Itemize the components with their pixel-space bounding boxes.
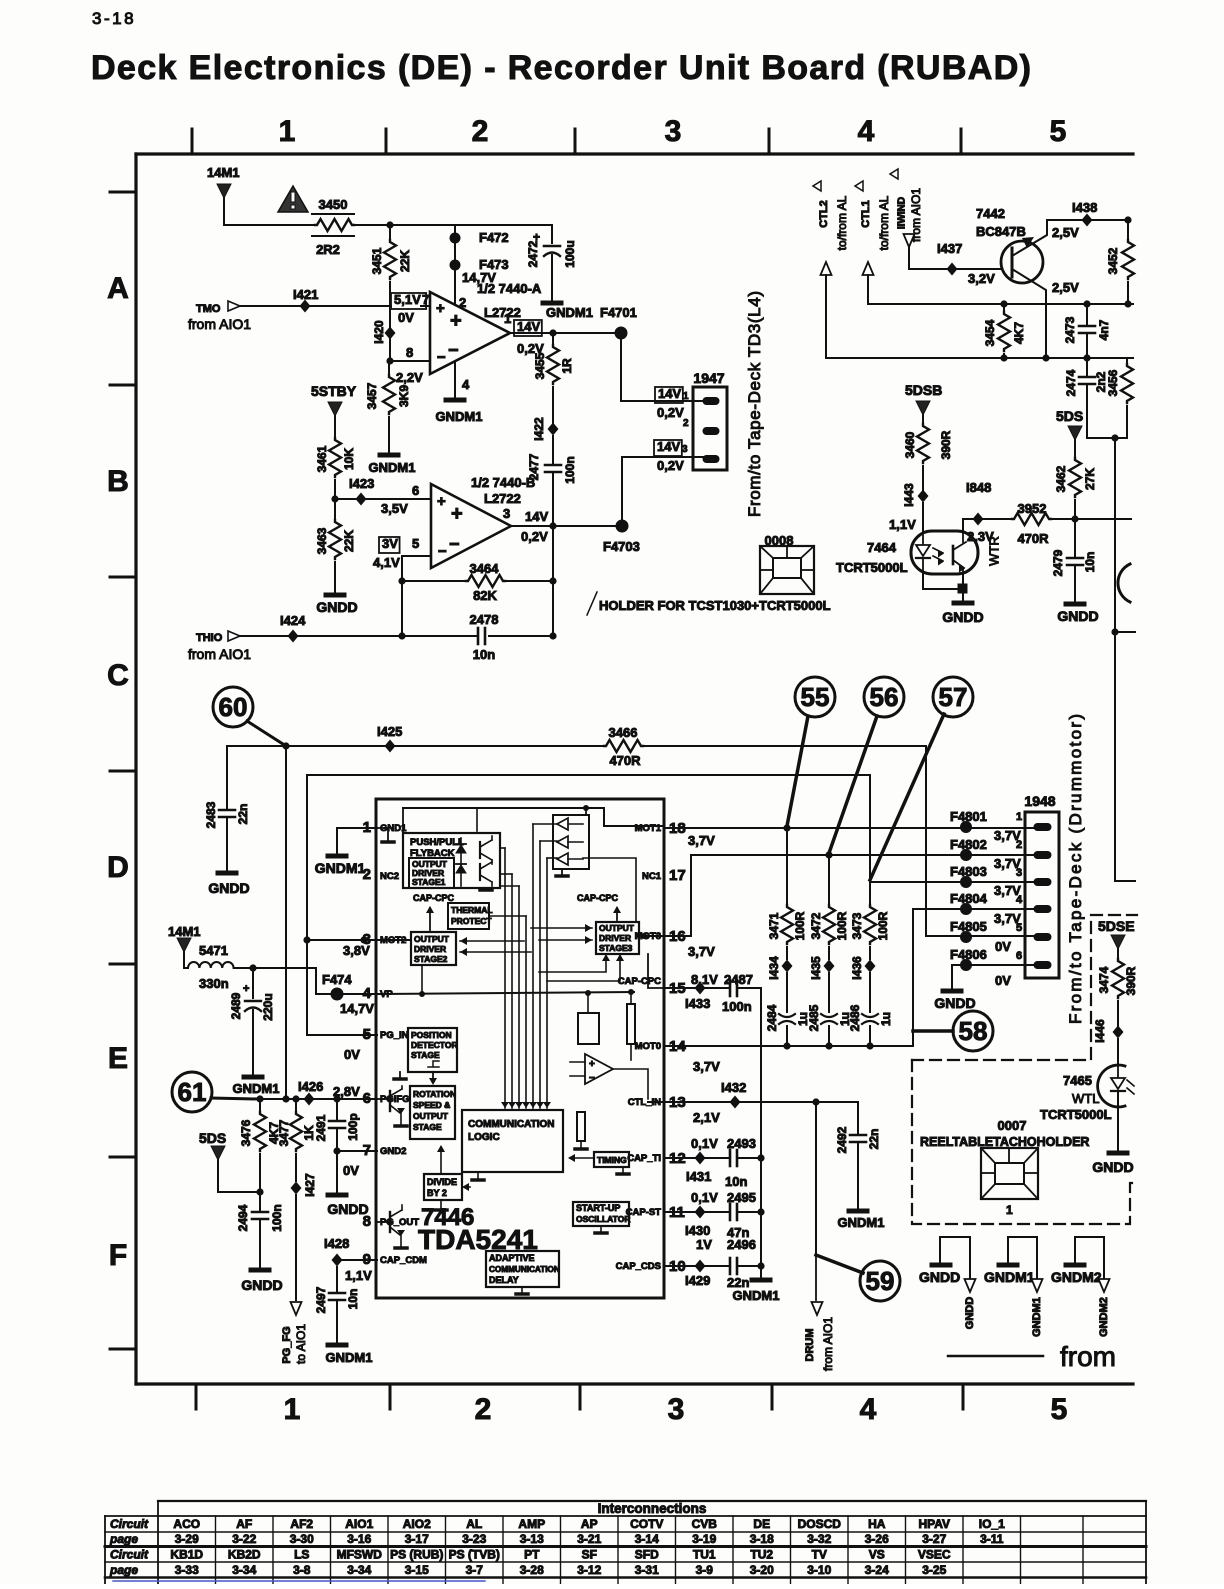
svg-text:OUTPUT: OUTPUT [413,1111,449,1121]
svg-text:2R2: 2R2 [316,242,340,257]
svg-text:GNDM1: GNDM1 [233,1081,280,1096]
ground GNDM1 under 2492 [849,1209,867,1214]
svg-text:BY 2: BY 2 [427,1188,447,1198]
svg-text:6: 6 [1016,950,1022,962]
junction node I423 [331,495,338,502]
svg-text:14V: 14V [657,439,680,454]
IC block rotation speed output stage [410,1086,455,1139]
IC stage2 input arrows [460,940,524,942]
svg-text:SPEED &: SPEED & [413,1100,450,1110]
svg-text:CTL1: CTL1 [860,200,872,228]
svg-text:−: − [448,340,459,360]
label holder note [587,592,597,615]
IC U7446 TDA5241 outline [376,799,664,1298]
svg-text:I848: I848 [966,480,991,495]
testpoint I438 [1082,214,1093,227]
svg-text:from AIO1: from AIO1 [821,1317,835,1371]
svg-text:1: 1 [1006,1203,1013,1217]
svg-text:0V: 0V [344,1047,360,1062]
testpoint I422 [548,423,559,436]
svg-text:CAP-CPC: CAP-CPC [577,893,619,903]
svg-text:56: 56 [870,682,899,712]
svg-text:SF: SF [582,1548,597,1562]
wire rail CTL1 [868,303,1133,305]
value 3V boxed [379,537,400,553]
IC pin1 internal ground [377,827,388,829]
svg-text:330n: 330n [199,976,229,991]
svg-text:3,2V: 3,2V [968,271,995,286]
svg-text:Deck Electronics (DE) - Record: Deck Electronics (DE) - Recorder Unit Bo… [91,49,1031,87]
legend ground GNDM2 [1075,1237,1104,1279]
svg-text:AF: AF [236,1517,252,1531]
svg-text:2: 2 [475,1393,492,1426]
svg-text:2474: 2474 [1064,369,1078,396]
IC block thermal protect [448,903,489,929]
svg-text:0V: 0V [995,939,1011,954]
wire F4701 riser to connector [621,333,705,401]
svg-text:MFSWD: MFSWD [337,1548,383,1562]
svg-text:TIMING: TIMING [597,1155,627,1165]
svg-text:MOT1: MOT1 [635,823,662,834]
svg-text:4: 4 [858,115,875,148]
warning triangle [278,186,308,212]
ground GNDD under 2479 [1066,602,1084,607]
wire CAP-ST pin11 [664,1211,730,1213]
svg-text:L2722: L2722 [484,305,521,320]
wire vertical x286 [285,746,287,1099]
svg-text:ACO: ACO [173,1517,200,1531]
value 5,1V boxed [391,293,426,309]
svg-text:TV: TV [812,1548,827,1562]
svg-text:3K9: 3K9 [397,385,411,407]
svg-text:F4806: F4806 [950,947,987,962]
svg-text:14V: 14V [525,509,548,524]
svg-text:27K: 27K [1083,468,1097,490]
svg-text:−: − [437,349,446,366]
svg-text:2486: 2486 [848,1004,862,1031]
svg-text:CAP_CDS: CAP_CDS [616,1261,661,1272]
svg-text:3: 3 [363,931,371,948]
svg-text:4n7: 4n7 [1097,319,1111,340]
svg-text:3-24: 3-24 [865,1563,889,1577]
svg-text:I443: I443 [902,483,916,507]
svg-text:+: + [436,300,445,317]
svg-text:GNDD: GNDD [1057,608,1098,624]
svg-text:AMP: AMP [518,1517,545,1531]
svg-text:3457: 3457 [365,382,379,409]
svg-text:3: 3 [503,506,510,521]
ground GNDM1 under 2489 [244,1075,262,1080]
svg-text:0V: 0V [398,310,414,325]
svg-text:60: 60 [219,692,248,722]
signal CTL2 to/from AL [813,181,821,191]
wire inverting input pin 8 [386,357,393,364]
svg-text:10n: 10n [473,647,495,662]
svg-text:CAP-CPC: CAP-CPC [618,976,661,987]
svg-text:1: 1 [279,115,296,148]
svg-text:I429: I429 [685,1273,710,1288]
wire to op-amp B + [335,498,430,500]
op-amp U7440-B [431,484,511,568]
svg-text:GNDM1: GNDM1 [436,409,483,424]
svg-text:100n: 100n [563,456,577,483]
resistor 3451 22K [389,225,391,240]
testpoint I420 [385,327,396,340]
svg-text:2479: 2479 [1051,549,1065,576]
F-nodes F4801-F4806 [960,821,972,833]
svg-text:3452: 3452 [1106,247,1120,274]
svg-text:F474: F474 [322,972,352,987]
ground GNDD under 2491 [328,1193,346,1198]
svg-text:GNDM1: GNDM1 [1031,1297,1043,1337]
capacitor 2485 1u [828,973,830,1012]
svg-text:I437: I437 [937,241,962,256]
legend ground GNDD [940,1237,970,1279]
svg-text:ADAPTIVE: ADAPTIVE [489,1253,535,1263]
svg-text:2493: 2493 [727,1136,756,1151]
ground GNDM1 op-amp A [446,398,464,403]
svg-text:Circuit: Circuit [110,1548,149,1562]
IC stage3 input arrows [531,927,592,929]
resistor 3457 3K9 [383,375,395,414]
svg-text:3-28: 3-28 [520,1563,544,1577]
svg-text:390R: 390R [1124,966,1138,995]
wire CTL_IN pin13 [664,1101,858,1103]
svg-text:VSEC: VSEC [918,1548,951,1562]
svg-text:59: 59 [866,1266,895,1296]
svg-text:IO_1: IO_1 [979,1517,1005,1531]
svg-text:GNDM1: GNDM1 [546,305,593,320]
capacitor 2479 10n [1074,519,1076,558]
wire CAP_CDM pin9 [337,1259,377,1261]
svg-text:to/from AL: to/from AL [877,195,891,250]
svg-text:10K: 10K [342,448,356,470]
svg-text:F4801: F4801 [950,809,987,824]
svg-text:5DSB: 5DSB [905,382,942,398]
svg-text:MOT0: MOT0 [635,1041,661,1052]
svg-text:3466: 3466 [609,725,638,740]
svg-text:3-33: 3-33 [175,1563,199,1577]
wire CAP_CDS pin10 [664,1265,730,1267]
svg-text:TMO: TMO [196,303,221,315]
svg-text:F4703: F4703 [603,539,640,554]
capacitor 2483 22n [219,809,235,812]
resistor 3471 100R [786,828,788,905]
svg-text:F4701: F4701 [600,305,637,320]
svg-text:DRIVER: DRIVER [599,933,631,943]
svg-text:from: from [1060,1341,1116,1372]
svg-text:2484: 2484 [765,1004,779,1031]
svg-text:58: 58 [959,1016,988,1046]
svg-text:3: 3 [682,444,688,455]
svg-text:0007: 0007 [998,1118,1027,1133]
svg-text:I436: I436 [850,956,864,980]
svg-text:2,1V: 2,1V [693,1110,720,1125]
svg-text:F4803: F4803 [950,864,987,879]
svg-text:I433: I433 [685,996,710,1011]
junction on output [549,329,556,336]
svg-text:I422: I422 [532,417,546,441]
svg-text:3-34: 3-34 [347,1563,371,1577]
testpoint I436 [865,960,876,973]
signal PG_FG to AIO1 [295,1195,297,1300]
capacitor 2486 1u [869,973,871,1012]
svg-text:6: 6 [412,483,419,498]
resistor 3472 100R [828,855,830,905]
svg-text:LS: LS [294,1548,309,1562]
svg-text:B: B [107,465,129,498]
testpoint I443 [918,490,929,503]
svg-text:1: 1 [1016,811,1022,823]
svg-text:I426: I426 [298,1079,323,1094]
svg-text:HPAV: HPAV [918,1517,950,1531]
IC stage3 bottom arrows [539,956,606,972]
svg-text:POSITION: POSITION [411,1030,452,1040]
svg-text:2497: 2497 [314,1286,328,1313]
svg-text:START-UP: START-UP [576,1203,620,1213]
svg-text:4,1V: 4,1V [373,555,400,570]
scan artifact blue line [113,1580,485,1582]
svg-text:I421: I421 [293,287,318,302]
svg-text:DIVIDE: DIVIDE [427,1177,457,1187]
svg-text:8,1V: 8,1V [691,972,718,987]
svg-text:CAP_CDM: CAP_CDM [380,1255,427,1266]
svg-text:3476: 3476 [239,1119,253,1146]
svg-text:3-32: 3-32 [807,1532,831,1546]
svg-text:TU1: TU1 [693,1548,716,1562]
svg-text:F4805: F4805 [950,919,987,934]
svg-text:GNDM2: GNDM2 [1098,1297,1110,1337]
svg-text:−: − [438,543,447,560]
svg-text:100R: 100R [835,911,849,940]
IC block start-up oscillator [573,1202,629,1226]
svg-text:+: + [437,493,446,510]
svg-text:DRIVER: DRIVER [414,944,446,954]
node refs 55 56 57 [795,677,835,717]
IC MOT1 internal rail [403,808,664,826]
svg-text:GNDD: GNDD [934,995,975,1011]
svg-text:From/to Tape-Deck TD3(L4): From/to Tape-Deck TD3(L4) [745,291,764,517]
svg-text:14,7V: 14,7V [340,1001,374,1016]
svg-text:GNDM1: GNDM1 [315,860,366,876]
svg-text:TCRT5000L: TCRT5000L [1040,1107,1112,1122]
svg-text:3-19: 3-19 [692,1532,716,1546]
svg-text:3-34: 3-34 [232,1563,256,1577]
svg-text:3463: 3463 [315,527,329,554]
svg-text:3-8: 3-8 [293,1563,311,1577]
svg-text:F4802: F4802 [950,837,987,852]
IC triangles block [553,815,589,869]
resistor 3477 1K [295,1099,297,1112]
svg-text:5DSE: 5DSE [1098,918,1135,934]
svg-text:9: 9 [363,1251,371,1268]
wire opto collector [963,519,1012,531]
node ref 60 [213,687,253,727]
wire opto emitter to ground [923,574,963,589]
svg-text:BC847B: BC847B [976,224,1026,239]
svg-text:DE: DE [753,1517,770,1531]
svg-text:2487: 2487 [724,972,753,987]
svg-text:PUSH/PULL: PUSH/PULL [410,837,464,848]
svg-text:2495: 2495 [727,1190,756,1205]
resistor 3454 4K7 [1003,304,1005,312]
svg-text:0,2V: 0,2V [657,405,684,420]
svg-text:3-16: 3-16 [347,1532,371,1546]
svg-text:2485: 2485 [807,1004,821,1031]
svg-text:F4804: F4804 [950,891,988,906]
wire rail CTL2 [826,357,1133,359]
svg-text:GND2: GND2 [380,1146,406,1157]
svg-text:HOLDER FOR TCST1030+TCRT5000L: HOLDER FOR TCST1030+TCRT5000L [599,598,831,613]
IC VP internal line [377,992,634,994]
svg-text:GNDD: GNDD [208,880,249,896]
node F474 [331,988,344,1001]
svg-text:14V: 14V [658,386,681,401]
junction node [386,221,393,228]
wire MOT1 pin18 to F4801 [664,827,1036,829]
svg-text:THERMAL: THERMAL [451,905,493,915]
testpoint I430 [695,1206,706,1219]
IC block divide by 2 [424,1174,462,1200]
testpoint I421 [300,300,311,313]
svg-text:100p: 100p [346,1113,360,1140]
capacitor 2494 100n [252,1211,268,1214]
svg-text:7464: 7464 [867,540,897,555]
svg-text:3462: 3462 [1054,465,1068,492]
svg-text:5471: 5471 [199,943,228,958]
svg-text:GNDM1: GNDM1 [984,1269,1035,1285]
svg-text:GNDD: GNDD [919,1269,960,1285]
svg-text:I432: I432 [721,1080,746,1095]
svg-text:3: 3 [1016,867,1022,879]
svg-text:GNDM1: GNDM1 [733,1288,780,1303]
svg-text:3-14: 3-14 [635,1532,659,1546]
resistor 3452 [1127,220,1129,240]
svg-text:3454: 3454 [983,319,997,346]
resistor 3456 [1126,358,1128,364]
svg-text:to AIO1: to AIO1 [294,1324,308,1364]
svg-text:1,1V: 1,1V [889,517,916,532]
capacitor 2489 220u [252,968,254,998]
svg-text:I425: I425 [377,724,402,739]
svg-text:6: 6 [363,1090,371,1107]
node F4703 [616,520,629,533]
IC block position detector stage [408,1028,457,1072]
testpoint I434 [782,960,793,973]
wire op-amp B output [511,525,616,527]
svg-text:WTL: WTL [1072,1091,1099,1106]
svg-text:COTV: COTV [630,1517,663,1531]
wire CAP_TI pin12 [664,1157,730,1159]
IC block push/pull flyback stage1 [403,833,500,888]
svg-text:3-23: 3-23 [462,1532,486,1546]
svg-text:5,1V: 5,1V [394,292,421,307]
svg-text:0,2V: 0,2V [521,529,548,544]
svg-text:GNDM1: GNDM1 [326,1350,373,1365]
svg-text:3-12: 3-12 [577,1563,601,1577]
IC block adaptive communication delay [486,1251,559,1287]
node F4701 [615,327,628,340]
svg-text:AIO1: AIO1 [345,1517,373,1531]
wire pin 2 supply [454,225,456,305]
testpoint I426 [304,1093,315,1106]
svg-text:57: 57 [939,682,968,712]
svg-text:3-27: 3-27 [922,1532,946,1546]
svg-text:3472: 3472 [809,912,823,939]
svg-text:IIWIND: IIWIND [897,197,908,229]
svg-text:OUTPUT: OUTPUT [414,934,450,944]
svg-text:E: E [108,1042,128,1075]
svg-text:−: − [449,534,460,554]
svg-text:0,2V: 0,2V [657,458,684,473]
svg-text:5DS: 5DS [199,1130,226,1146]
wire pin 5 feedback [402,556,431,636]
svg-text:KB1D: KB1D [170,1548,203,1562]
node F472 [450,233,461,244]
svg-text:2496: 2496 [727,1237,756,1252]
svg-text:GNDM2: GNDM2 [1051,1269,1102,1285]
svg-text:2473: 2473 [1063,316,1077,343]
svg-text:4: 4 [462,377,470,392]
capacitor 2491 100p [336,1099,338,1121]
ground GNDD under F4806 [943,989,961,994]
svg-text:1: 1 [683,391,689,402]
svg-text:GNDD: GNDD [241,1277,282,1293]
svg-text:61: 61 [178,1077,207,1107]
svg-text:2: 2 [683,418,689,429]
svg-text:+: + [589,1059,595,1070]
svg-text:3-9: 3-9 [696,1563,714,1577]
svg-text:5: 5 [412,536,419,551]
svg-text:3-26: 3-26 [865,1532,889,1546]
capacitor 2492 22n [857,1102,859,1135]
svg-text:3-17: 3-17 [405,1532,429,1546]
svg-text:L2722: L2722 [484,491,521,506]
ground GNDM1 under 2472 [543,301,561,306]
capacitor 2477 100n [545,464,561,467]
wire MOT3 pin16 to F4802 [664,855,1036,936]
resistor 3473 100R [869,882,871,905]
capacitor 2478 10n [477,628,480,644]
ground GNDM1 under 3457 [380,453,398,458]
testpoint I848 [973,513,984,526]
svg-text:LOGIC: LOGIC [468,1132,500,1143]
svg-text:3461: 3461 [315,445,329,472]
IC PGIFG transistor [377,1098,390,1100]
svg-text:2: 2 [1016,839,1022,851]
svg-text:3-7: 3-7 [466,1563,484,1577]
svg-text:1u: 1u [879,1012,893,1026]
svg-text:3-11: 3-11 [980,1532,1004,1546]
value 14V boxed [514,320,542,336]
capacitor 2484 1u [786,973,788,1012]
svg-text:GNDM1: GNDM1 [369,460,416,475]
svg-text:2492: 2492 [835,1126,849,1153]
svg-text:3451: 3451 [370,247,384,274]
svg-text:3-31: 3-31 [635,1563,659,1577]
svg-text:3V: 3V [382,536,398,551]
svg-text:D: D [107,851,129,884]
svg-text:100n: 100n [270,1204,284,1231]
testpoint I431 [695,1152,706,1165]
svg-text:GNDD: GNDD [964,1297,976,1329]
svg-text:100R: 100R [793,911,807,940]
svg-text:3-22: 3-22 [232,1532,256,1546]
svg-text:8: 8 [406,345,413,360]
svg-text:3460: 3460 [903,431,917,458]
svg-text:82K: 82K [473,588,497,603]
svg-text:7: 7 [422,292,429,307]
